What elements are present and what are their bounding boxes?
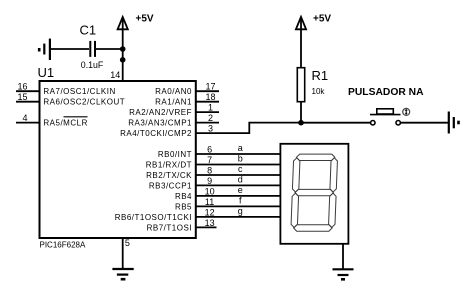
pin 17 number <box>205 82 215 92</box>
resistor R1 10k <box>297 68 328 102</box>
power +5V (R1 rail) <box>296 14 332 68</box>
IC U1 PIC16F628A box <box>38 65 196 250</box>
svg-text:RA3/AN3/CMP1: RA3/AN3/CMP1 <box>128 119 192 128</box>
svg-text:RA0/AN0: RA0/AN0 <box>155 87 192 96</box>
svg-text:8: 8 <box>207 165 212 175</box>
pin RA7/OSC1/CLKIN label <box>43 87 115 96</box>
wire pin 5 to ground <box>122 237 124 269</box>
segment D (bottom) <box>294 225 333 231</box>
svg-text:11: 11 <box>205 197 214 207</box>
pin 12 number <box>205 207 215 217</box>
svg-text:RB4: RB4 <box>175 192 192 201</box>
svg-text:13: 13 <box>205 218 215 228</box>
wire pin 6 net a <box>196 153 281 155</box>
wire pin 8 net c <box>196 174 281 176</box>
svg-text:15: 15 <box>17 92 27 102</box>
pin RA5/MCLR label (overlined MCLR) <box>43 117 87 128</box>
svg-text:RB3/CCP1: RB3/CCP1 <box>149 181 192 190</box>
svg-text:6: 6 <box>207 144 212 154</box>
node f label <box>239 196 242 206</box>
pin 8 number <box>207 165 212 175</box>
svg-text:RB0/INT: RB0/INT <box>158 150 192 159</box>
svg-text:U1: U1 <box>38 65 55 80</box>
svg-text:PIC16F628A: PIC16F628A <box>40 241 86 250</box>
wire pin 3 to pull-up node <box>196 123 301 134</box>
ground (left of C1) <box>39 39 50 60</box>
svg-text:3: 3 <box>208 124 213 134</box>
pin 3 number <box>208 124 213 134</box>
wire pin 13 stub <box>196 226 217 228</box>
pin RB4 label <box>175 192 192 201</box>
push button (PULSADOR NA) <box>348 87 424 125</box>
svg-text:RA2/AN2/VREF: RA2/AN2/VREF <box>129 108 192 117</box>
pin RA6/OSC2/CLKOUT label <box>43 98 125 107</box>
pin 15 number <box>17 92 27 102</box>
segment C (lower-right) <box>328 193 336 227</box>
svg-text:16: 16 <box>17 82 27 92</box>
wire pin 2 stub <box>196 122 219 124</box>
svg-text:RB6/T1OSO/T1CKI: RB6/T1OSO/T1CKI <box>115 213 192 222</box>
wire pin 9 net d <box>196 184 281 186</box>
pin 16 number <box>17 82 27 92</box>
pin 14 number <box>110 70 120 80</box>
pin RB6/T1OSO/T1CKI label <box>115 213 192 222</box>
wire pin 1 stub <box>196 111 219 113</box>
svg-text:d: d <box>238 175 243 185</box>
svg-text:RA4/T0CKI/CMP2: RA4/T0CKI/CMP2 <box>120 129 192 138</box>
node junction dots on +5V rail <box>120 46 126 62</box>
pin RA4/T0CKI/CMP2 label <box>120 129 192 138</box>
node e label <box>238 185 243 195</box>
pin RB5 label <box>175 202 192 211</box>
pin RB0/INT label <box>158 150 192 159</box>
wire button to ground <box>401 122 448 124</box>
svg-text:e: e <box>238 185 243 195</box>
pin 4 number <box>22 113 27 123</box>
node g label <box>238 206 243 216</box>
pin 11 number <box>205 197 214 207</box>
pin 13 number <box>205 218 215 228</box>
node c label <box>238 164 243 174</box>
segment G (middle) <box>295 189 334 195</box>
wire pin 15 stub <box>16 101 40 103</box>
svg-text:RA5/MCLR: RA5/MCLR <box>43 119 87 128</box>
svg-text:RB5: RB5 <box>175 202 192 211</box>
svg-text:PULSADOR NA: PULSADOR NA <box>348 87 424 98</box>
segment E (lower-left) <box>291 193 299 227</box>
capacitor C1 <box>80 23 104 71</box>
wire display to ground <box>342 244 344 269</box>
wire node to button <box>301 122 370 124</box>
wire pin 11 net f <box>196 205 281 207</box>
node junction R1/pin3/button <box>298 120 304 126</box>
pin 6 number <box>207 144 212 154</box>
power +5V (left rail) <box>118 14 154 82</box>
svg-text:+5V: +5V <box>313 14 331 25</box>
svg-text:+5V: +5V <box>136 14 154 25</box>
svg-text:RA1/AN1: RA1/AN1 <box>155 98 192 107</box>
wire C1 to +5V rail <box>95 48 123 50</box>
svg-text:5: 5 <box>125 238 130 248</box>
pin RB1/RX/DT label <box>146 161 192 170</box>
svg-text:18: 18 <box>205 92 215 102</box>
pin RB7/T1OSI label <box>147 223 192 232</box>
wire pin 12 net g <box>196 216 281 218</box>
wire pin 7 net b <box>196 164 281 166</box>
svg-text:C1: C1 <box>80 23 97 38</box>
pin RA1/AN1 label <box>155 98 192 107</box>
segment F (upper-left) <box>292 158 300 192</box>
svg-text:10k: 10k <box>312 87 326 96</box>
svg-text:RB1/RX/DT: RB1/RX/DT <box>146 161 192 170</box>
svg-text:10: 10 <box>205 186 215 196</box>
wire pin 17 stub <box>196 90 219 92</box>
svg-text:12: 12 <box>205 207 215 217</box>
segment B (upper-right) <box>330 158 338 192</box>
svg-text:R1: R1 <box>312 68 329 83</box>
ground (pin 5) <box>112 269 133 279</box>
svg-text:9: 9 <box>207 176 212 186</box>
segment A (top) <box>296 154 335 160</box>
svg-text:4: 4 <box>22 113 27 123</box>
svg-text:a: a <box>238 143 243 153</box>
node d label <box>238 175 243 185</box>
pin RA2/AN2/VREF label <box>129 108 192 117</box>
svg-text:17: 17 <box>205 82 215 92</box>
pin 2 number <box>208 113 213 123</box>
pin 18 number <box>205 92 215 102</box>
svg-text:c: c <box>238 164 243 174</box>
node a label <box>238 143 243 153</box>
pin RA0/AN0 label <box>155 87 192 96</box>
wire ground to C1 <box>50 48 89 50</box>
svg-text:b: b <box>238 154 243 164</box>
svg-text:RB7/T1OSI: RB7/T1OSI <box>147 223 192 232</box>
svg-text:2: 2 <box>208 113 213 123</box>
7-segment display box <box>280 144 348 244</box>
svg-text:g: g <box>238 206 243 216</box>
ground (right of button) <box>449 112 459 134</box>
svg-text:1: 1 <box>208 103 213 113</box>
pin 9 number <box>207 176 212 186</box>
wire pin 4 stub <box>16 122 40 124</box>
wire pin 16 stub <box>16 90 40 92</box>
svg-text:RA7/OSC1/CLKIN: RA7/OSC1/CLKIN <box>43 87 115 96</box>
pin 10 number <box>205 186 215 196</box>
svg-text:RB2/TX/CK: RB2/TX/CK <box>146 171 192 180</box>
svg-text:7: 7 <box>207 155 212 165</box>
wire pin 18 stub <box>196 101 219 103</box>
wire R1 bottom to node <box>300 102 302 123</box>
pin 5 number <box>125 238 130 248</box>
svg-text:14: 14 <box>110 70 120 80</box>
pin RB2/TX/CK label <box>146 171 192 180</box>
ground (display) <box>333 269 354 279</box>
node b label <box>238 154 243 164</box>
svg-text:RA6/OSC2/CLKOUT: RA6/OSC2/CLKOUT <box>43 98 125 107</box>
pin 1 number <box>208 103 213 113</box>
wire pin 10 net e <box>196 195 281 197</box>
svg-text:0.1uF: 0.1uF <box>81 60 104 70</box>
pin RA3/AN3/CMP1 label <box>128 119 192 128</box>
pin RB3/CCP1 label <box>149 181 192 190</box>
pin 7 number <box>207 155 212 165</box>
